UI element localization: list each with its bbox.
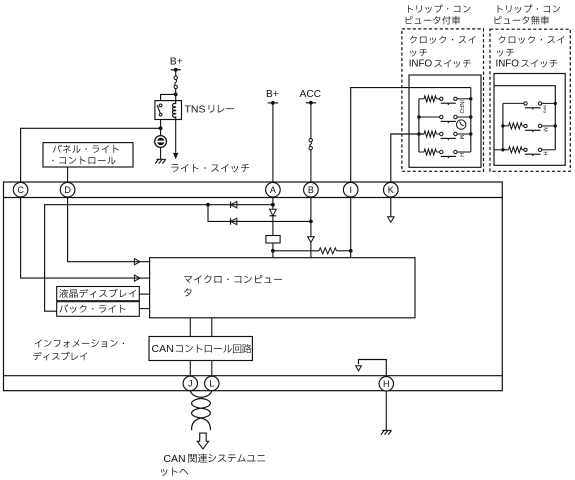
node right bus clock row <box>469 115 472 118</box>
svg-text:H: H <box>458 153 464 157</box>
wire connector B down to microcomputer <box>310 197 312 237</box>
svg-text:L: L <box>209 379 214 389</box>
wire fusible link to junction <box>175 89 177 95</box>
ACC terminal bar and dot <box>306 102 316 104</box>
wire bulb to ground <box>160 147 162 159</box>
label クロック・スイッチ INFOスイッチ <box>410 36 476 44</box>
node junction above TNS relay <box>174 93 178 97</box>
dashed enclosure (without trip computer) <box>490 29 570 171</box>
connector A <box>266 182 281 197</box>
switch INFO <box>436 98 439 100</box>
wire relay coil output to light switch arrow <box>175 120 177 153</box>
switch unit box (without trip computer) <box>494 74 565 166</box>
wire node to connector C column <box>21 128 161 182</box>
wire connector C to microcomputer <box>21 197 150 278</box>
svg-text:M: M <box>542 127 548 132</box>
feed wire H row (right box) <box>494 149 503 151</box>
arrow into microcomputer (C) <box>134 275 140 281</box>
svg-text:CAN: CAN <box>152 343 174 355</box>
resistor H row (right box) <box>509 147 523 153</box>
diode (B+ to back-light) <box>230 202 232 208</box>
dashed enclosure (with trip computer) <box>402 29 484 171</box>
label 液晶ディスプレイ <box>59 289 136 298</box>
wire B+ down to fusible link <box>175 70 177 76</box>
wire A node to microcomputer <box>272 251 274 258</box>
svg-text:B+: B+ <box>266 89 279 100</box>
box CAN control circuit <box>149 337 252 361</box>
signal arrow on B column <box>308 237 315 243</box>
box liquid crystal display <box>57 287 140 301</box>
node B+ diode bus junction <box>206 203 210 207</box>
svg-text:C: C <box>17 185 24 195</box>
pull-up resistor to I line <box>273 250 319 252</box>
wire connector I down to microcomputer <box>350 197 352 258</box>
node right bus M row <box>469 132 472 135</box>
svg-text:J: J <box>188 379 193 389</box>
node right bus M row <box>554 124 557 127</box>
wire connector D to microcomputer <box>68 197 150 262</box>
resistor M row (right box) <box>503 125 509 127</box>
wire back-light to microcomputer <box>139 308 149 310</box>
resistor box on A column <box>266 236 280 244</box>
svg-text:INFO: INFO <box>409 59 433 70</box>
wire resistor box to node <box>272 243 274 251</box>
connector I <box>343 182 358 197</box>
fusible link (ACC) <box>309 139 312 142</box>
arrow into microcomputer (D) <box>134 259 140 265</box>
wire B+ bus to back-light <box>45 205 273 312</box>
arrow connector K to other circuit <box>388 217 395 223</box>
svg-text:A: A <box>270 185 276 195</box>
wire connector I to clock/INFO switch (with trip computer) <box>351 88 471 183</box>
node right bus INFO row <box>469 97 472 100</box>
connector J <box>183 376 197 390</box>
label マイクロ・コンピュータ <box>184 275 282 283</box>
node left bus row2 <box>417 115 420 118</box>
feed wire top <box>494 86 555 150</box>
wire microcomputer to CAN control (J) <box>189 318 191 337</box>
wire H to internal arrow <box>359 360 387 378</box>
svg-text:K: K <box>388 185 394 195</box>
connector H <box>379 377 393 391</box>
switch INFO (right box) <box>503 102 524 104</box>
wire ACC down to fusible link <box>310 103 312 139</box>
wire relay switch to node <box>160 120 162 129</box>
B+ terminal bar and dot <box>171 69 181 71</box>
top connector rail line <box>4 197 503 199</box>
fusible link (TNS relay feed) <box>174 76 177 79</box>
svg-text:ACC: ACC <box>300 89 322 100</box>
wire branch to relay switch <box>161 94 176 100</box>
wire diode to resistor box <box>272 216 274 236</box>
relay TNS box <box>155 101 182 120</box>
node right bus INFO row <box>554 102 557 105</box>
twisted pair CAN bus <box>190 391 212 397</box>
svg-text:B+: B+ <box>170 56 183 67</box>
block arrow to CAN system units <box>197 433 208 449</box>
svg-text:INFO: INFO <box>496 59 520 70</box>
svg-text:CAN: CAN <box>163 453 185 465</box>
wire top bus to right bus <box>470 88 472 152</box>
label インフォメーション・ディスプレイ <box>35 339 125 347</box>
label トリップ・コンピュータ無車 <box>498 4 560 13</box>
resistor M row <box>424 131 436 137</box>
svg-text:H: H <box>542 151 548 155</box>
ground (H) <box>382 429 391 431</box>
diode (ACC to back-light) <box>230 218 232 224</box>
svg-text:INFO: INFO <box>458 100 464 114</box>
wire fusible link to connector B <box>310 150 312 183</box>
relay switch contacts <box>159 104 162 107</box>
bulb illumination symbol <box>155 136 167 148</box>
box panel light control <box>43 143 133 167</box>
switch H (right box) <box>524 148 527 151</box>
clock symbol <box>457 120 466 129</box>
wire connector A down <box>272 197 274 209</box>
switch H <box>436 151 439 153</box>
microcomputer box <box>150 258 415 318</box>
wire coil feed into box <box>175 94 177 104</box>
node I column junction <box>349 249 353 253</box>
svg-text:I: I <box>349 185 352 195</box>
relay coil <box>173 103 176 119</box>
label クロック・スイッチ INFOスイッチ (right) <box>499 36 565 44</box>
svg-text:H: H <box>383 379 390 389</box>
wire CAN control to connector J <box>189 361 191 377</box>
diode on A column <box>270 209 277 216</box>
switch M (right box) <box>522 125 524 127</box>
wire CAN control to connector L <box>211 361 213 377</box>
arrow internal (H) <box>356 366 362 371</box>
node left bus row3 <box>501 148 504 151</box>
label パネル・ライト・コントロール <box>53 145 119 153</box>
connector B <box>304 182 319 197</box>
left bus (right box) <box>502 103 504 149</box>
ground (TNS relay) <box>156 158 165 160</box>
wire LCD to microcomputer <box>139 293 149 295</box>
information display unit outline <box>4 182 503 391</box>
label ライト・スイッチ <box>171 164 249 172</box>
label トリップ・コンピュータ付車 <box>408 4 470 13</box>
svg-text:B: B <box>308 185 314 195</box>
svg-text:INFO: INFO <box>543 105 547 113</box>
connector D <box>60 182 75 197</box>
svg-text:M: M <box>458 135 464 140</box>
node left bus row2 <box>501 124 504 127</box>
wire connector H to ground <box>385 391 387 430</box>
switch M <box>436 133 439 135</box>
wire microcomputer to CAN control (L) <box>211 318 213 337</box>
resistor H row <box>419 151 424 153</box>
resistor INFO row <box>419 98 424 100</box>
bottom connector rail line <box>4 375 503 377</box>
node connector A junction <box>271 203 275 207</box>
arrow to light switch <box>173 153 178 159</box>
connector C <box>13 182 28 197</box>
node relay output junction <box>159 126 163 130</box>
svg-text:D: D <box>64 185 71 195</box>
svg-text:TNS: TNS <box>185 103 206 115</box>
node connector B junction <box>309 220 313 224</box>
wire ACC branch <box>208 205 311 222</box>
connector L <box>205 376 219 390</box>
wire connector K stub <box>390 197 392 217</box>
left bus <box>418 99 420 152</box>
switch unit box (with trip computer) <box>409 75 481 167</box>
node left bus row3 <box>417 132 420 135</box>
label バック・ライト <box>60 304 126 313</box>
wire connector K to clock/INFO switch M terminal <box>391 134 424 182</box>
wire panel light control to connector D <box>67 167 69 182</box>
node A column pull-up junction <box>271 249 275 253</box>
switch clock row <box>419 116 440 118</box>
box back-light <box>57 302 140 317</box>
connector K <box>384 182 399 197</box>
wire B+ to connector A <box>272 103 274 182</box>
wire node to bulb <box>160 128 162 135</box>
B+ terminal bar and dot <box>268 102 278 104</box>
